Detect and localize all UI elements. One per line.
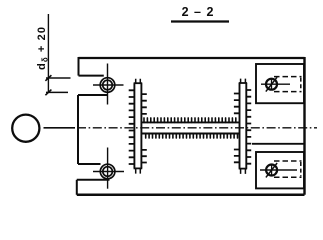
heater left bar bottom cap <box>134 167 143 169</box>
bolt pocket rectangle top <box>256 64 304 103</box>
heater cross bar bottom line <box>141 133 239 135</box>
bolt B1 hidden hole dashed bottom <box>274 91 302 93</box>
heater right bar line outer <box>245 83 247 169</box>
bolt pocket rectangle bottom <box>256 152 304 188</box>
bolt B1 axis <box>261 83 290 85</box>
heater left bar line outer <box>140 83 142 168</box>
heater left bar left teeth <box>129 90 135 164</box>
right step line <box>252 143 305 145</box>
heater right bar top cap <box>239 82 247 84</box>
bolt B1 vertical tick <box>271 78 273 90</box>
part outline: top edge <box>79 57 305 59</box>
bolt B1 slash <box>266 77 277 91</box>
main dash-dot centerline <box>77 127 317 129</box>
bottom slot lower ledge <box>77 179 110 181</box>
svg-text:dδ + 20: dδ + 20 <box>36 26 49 70</box>
bolt B2 hidden hole dashed top <box>274 160 302 162</box>
pin P2 circle (bottom) <box>100 164 115 179</box>
heater right bar left teeth <box>234 94 240 163</box>
bolt B1 hidden hole dashed top <box>274 76 302 78</box>
pin P1 horizontal centerline <box>93 84 124 86</box>
bolt B2 vertical tick <box>271 164 273 176</box>
part outline: bottom edge <box>77 194 305 197</box>
bolt B2 hidden hole dashed end <box>300 162 302 176</box>
heater left bar top cap <box>134 82 143 84</box>
left edge upper segment <box>78 57 80 76</box>
top slot upper ledge <box>79 75 104 77</box>
dimension label d_delta + 20 (rotated) <box>36 26 49 70</box>
bolt B2 circle <box>266 165 277 176</box>
pin P2 horizontal centerline <box>93 171 124 173</box>
extension line lower <box>46 91 68 93</box>
solid centerline stub from circle <box>44 127 76 129</box>
pin P1 circle (top) <box>100 78 115 93</box>
big circle (roller) left <box>12 115 39 142</box>
heater cross bar top teeth <box>144 118 236 123</box>
heater left bar line inner <box>133 83 135 168</box>
dimension tick bottom <box>45 90 51 96</box>
title underline <box>171 20 229 22</box>
bolt B2 hidden hole dashed bottom <box>274 176 302 178</box>
left edge lower segment <box>76 180 78 195</box>
heater cross bar bottom teeth <box>146 134 238 139</box>
section title 2-2 <box>182 5 215 19</box>
bolt B1 hidden hole dashed end <box>300 78 302 91</box>
heater right bar line inner <box>239 83 241 169</box>
svg-text:2 – 2: 2 – 2 <box>182 5 215 19</box>
pin P2 vertical centerline <box>107 148 109 189</box>
heater right bar bottom cap <box>239 168 247 170</box>
heater cross bar top line <box>141 121 239 123</box>
left edge middle segment <box>77 95 79 164</box>
dimension line vertical <box>47 14 49 92</box>
pin P1 vertical centerline <box>107 64 109 105</box>
part outline: right edge <box>303 57 305 195</box>
heater right bar cap teeth <box>241 79 246 174</box>
top slot lower ledge <box>78 94 108 96</box>
bottom slot upper ledge <box>78 163 101 165</box>
extension line upper <box>46 77 71 79</box>
bolt B2 axis <box>260 169 297 171</box>
heater left bar cap teeth <box>136 79 141 174</box>
heater left bar right teeth <box>141 94 147 162</box>
bolt B2 slash <box>266 163 277 177</box>
heater right bar right teeth <box>246 90 251 164</box>
bolt B1 circle <box>266 79 277 90</box>
dimension tick top <box>45 75 51 81</box>
